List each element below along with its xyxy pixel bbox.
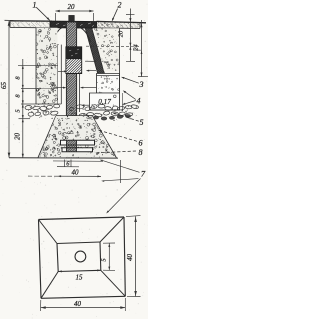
svg-text:65: 65 — [0, 82, 8, 90]
svg-text:40: 40 — [72, 169, 80, 177]
svg-text:3: 3 — [139, 80, 144, 89]
svg-text:8: 8 — [139, 148, 143, 157]
svg-text:20: 20 — [118, 30, 125, 37]
svg-text:2: 2 — [118, 1, 122, 10]
svg-text:15: 15 — [76, 274, 84, 282]
svg-text:24: 24 — [133, 44, 140, 50]
svg-text:40: 40 — [74, 300, 82, 308]
svg-text:1: 1 — [33, 1, 37, 10]
svg-text:4: 4 — [137, 97, 141, 106]
svg-text:5: 5 — [100, 258, 107, 261]
svg-text:5: 5 — [140, 118, 144, 127]
svg-text:6: 6 — [139, 139, 143, 148]
svg-text:40: 40 — [126, 254, 134, 262]
svg-text:20: 20 — [14, 133, 22, 141]
svg-text:20: 20 — [68, 3, 76, 11]
